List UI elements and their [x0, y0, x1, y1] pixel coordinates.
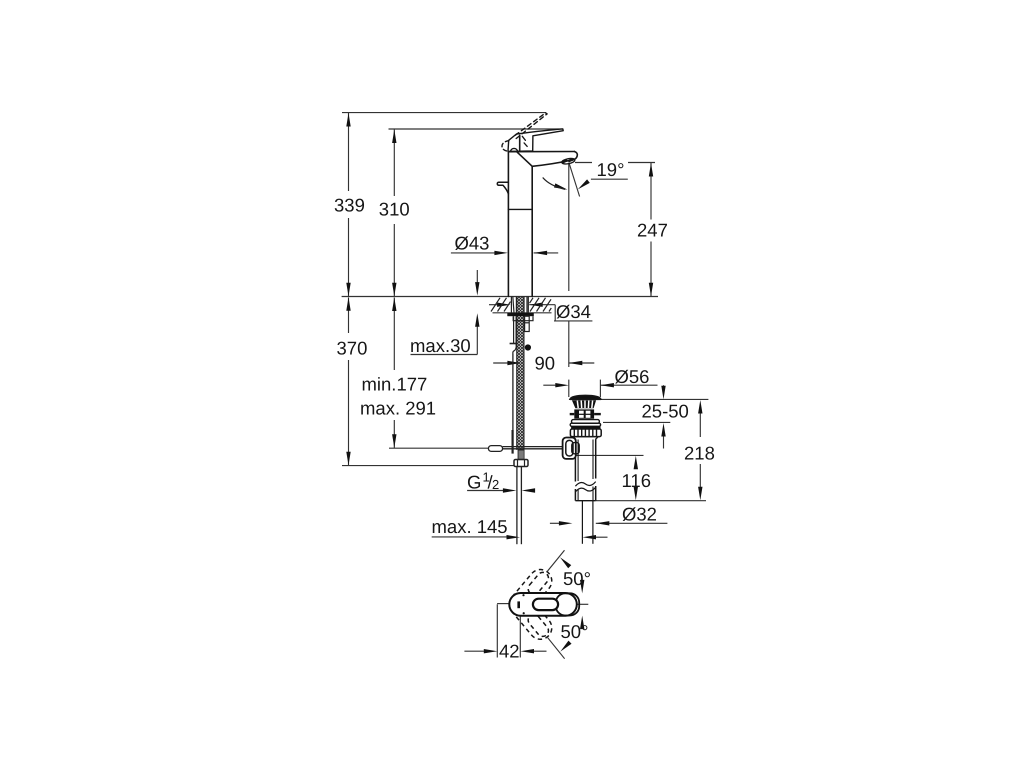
- svg-text:50°: 50°: [563, 568, 591, 589]
- svg-text:218: 218: [684, 443, 715, 464]
- svg-text:25-50: 25-50: [642, 401, 689, 422]
- svg-text:min.177: min.177: [362, 374, 428, 395]
- svg-text:Ø34: Ø34: [556, 301, 591, 322]
- svg-text:Ø32: Ø32: [622, 504, 657, 525]
- svg-text:max. 145: max. 145: [432, 516, 508, 537]
- svg-text:G: G: [467, 472, 481, 493]
- svg-text:370: 370: [337, 338, 368, 359]
- svg-text:2: 2: [492, 477, 499, 492]
- svg-text:max.30: max.30: [410, 335, 471, 356]
- svg-text:50°: 50°: [561, 621, 589, 642]
- svg-text:116: 116: [622, 470, 652, 491]
- svg-text:247: 247: [637, 220, 668, 241]
- svg-text:310: 310: [379, 199, 410, 220]
- svg-text:42: 42: [499, 641, 520, 662]
- svg-text:19°: 19°: [597, 159, 625, 180]
- svg-text:90: 90: [535, 353, 556, 374]
- svg-text:Ø56: Ø56: [615, 366, 650, 387]
- svg-text:339: 339: [334, 195, 365, 216]
- svg-text:max. 291: max. 291: [360, 398, 436, 419]
- svg-text:Ø43: Ø43: [455, 233, 490, 254]
